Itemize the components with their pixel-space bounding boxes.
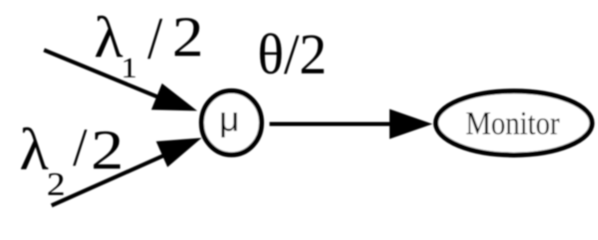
wire arrow A2 (lambda2 input): [52, 138, 202, 206]
label lambda_1: [96, 16, 123, 57]
label Monitor: [466, 112, 559, 134]
label slash of lambda2/2: [73, 130, 87, 166]
label 2 of lambda2/2: [94, 131, 120, 168]
label lambda_2: [21, 127, 48, 169]
label mu: [222, 113, 237, 138]
label subscript 1: [124, 58, 136, 77]
node: Monitor ellipse: [436, 91, 592, 155]
node: server circle: [202, 91, 262, 155]
label subscript 2: [48, 173, 63, 195]
label theta/2: [260, 33, 324, 74]
label slash of lambda1/2: [148, 19, 163, 59]
wire arrow A1 (lambda1 input): [44, 50, 197, 111]
label 2 of lambda1/2: [175, 18, 200, 56]
wire arrow A3 (to monitor): [270, 109, 433, 139]
